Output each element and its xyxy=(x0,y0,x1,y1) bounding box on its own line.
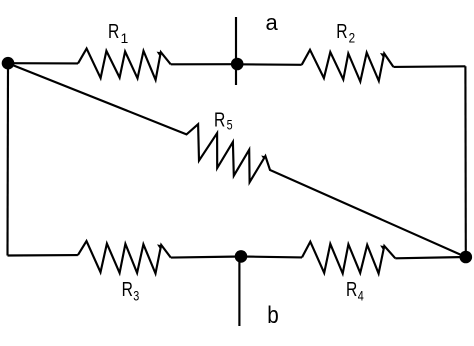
svg-text:R: R xyxy=(108,20,119,43)
resistor R2 xyxy=(302,50,394,82)
wire: R2 to top-right corner xyxy=(393,65,465,68)
svg-text:R: R xyxy=(122,278,133,301)
svg-text:b: b xyxy=(267,302,279,329)
resistor R5 diagonal xyxy=(8,63,466,257)
svg-text:R: R xyxy=(346,278,357,301)
wire: R4 to node b xyxy=(241,255,302,258)
svg-text:a: a xyxy=(266,10,279,35)
svg-text:5: 5 xyxy=(227,117,233,133)
apex tick R3 xyxy=(157,244,161,248)
apex tick R4 xyxy=(380,245,384,249)
apex tick R2 xyxy=(380,53,384,57)
wire: node b to R3 xyxy=(171,257,241,258)
svg-text:3: 3 xyxy=(133,288,139,304)
wire: bottom-right node to R4 xyxy=(395,257,466,258)
terminal a vertical wire xyxy=(235,17,237,85)
resistor R3 xyxy=(78,241,171,273)
wire: left edge xyxy=(6,63,9,255)
node dot: b junction xyxy=(235,250,248,263)
node dot: a junction xyxy=(231,58,244,71)
resistor R1 xyxy=(78,49,171,80)
wire: node a to R2 xyxy=(237,63,302,66)
apex tick R5 xyxy=(261,156,265,160)
wire: R1 to node a xyxy=(171,63,238,65)
svg-text:R: R xyxy=(214,109,225,132)
terminal b vertical wire xyxy=(238,257,240,327)
wire: right edge xyxy=(464,66,467,257)
apex tick R1 xyxy=(157,52,161,56)
wire: R3 to bottom-left corner xyxy=(8,254,78,257)
svg-text:4: 4 xyxy=(358,288,364,304)
wire: top-left node to R1 xyxy=(8,62,78,64)
svg-text:1: 1 xyxy=(121,30,129,46)
svg-text:2: 2 xyxy=(349,30,356,46)
svg-text:R: R xyxy=(336,20,347,43)
resistor R4 xyxy=(302,242,395,274)
node dot: top-left xyxy=(2,57,15,70)
node dot: bottom-right xyxy=(460,251,473,264)
